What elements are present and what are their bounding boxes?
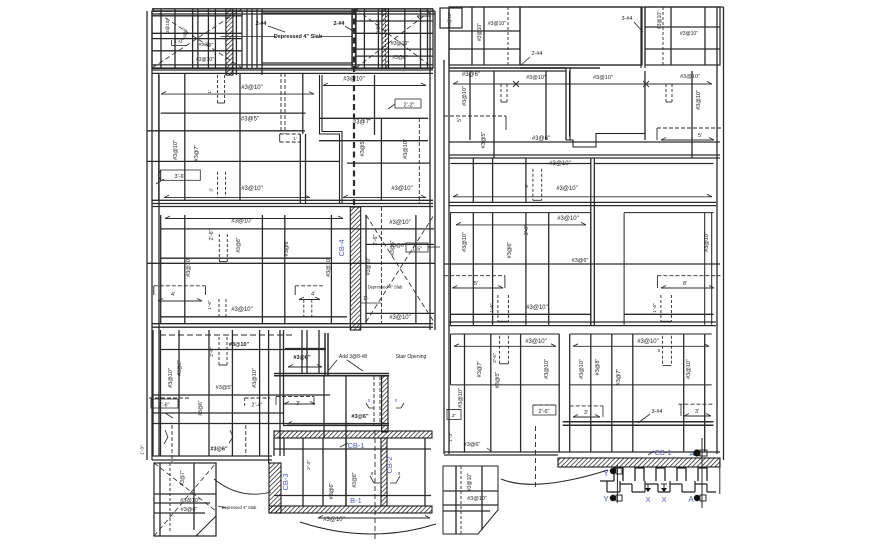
label #3@10 band3 low	[231, 307, 253, 313]
svg-text:2'-6": 2'-6"	[492, 353, 498, 363]
right panel outer east	[717, 7, 724, 460]
label x mark rp b5	[658, 348, 661, 354]
svg-text:#3@10": #3@10"	[467, 473, 473, 491]
band3 beam y229	[161, 228, 434, 230]
rp b5 dim lines	[454, 344, 709, 347]
rp b5 stirrups	[500, 336, 672, 366]
label #3@10 rot band4 w	[168, 368, 174, 388]
svg-text:1'-3": 1'-3"	[140, 445, 146, 455]
svg-text:CB-1: CB-1	[654, 448, 671, 457]
band4 verticals	[153, 330, 346, 506]
svg-text:#3@5": #3@5"	[216, 385, 233, 391]
beam CB-1 hatch left	[274, 431, 432, 438]
label #3@10 rot rp tl	[477, 23, 483, 41]
svg-text:#3@10": #3@10"	[343, 77, 365, 83]
label #3@7 rot bl	[180, 470, 186, 485]
label #3@10 rot rp b2 e	[696, 90, 702, 110]
label 1-6 band3 r	[361, 294, 382, 303]
label #3@10 rot rp b5 w	[458, 388, 464, 408]
beam CB-2 hatch	[381, 438, 387, 506]
band3 beam y263	[147, 262, 435, 264]
svg-text:2'-6": 2'-6"	[209, 347, 215, 357]
label #3@10 rp b2 b	[593, 75, 613, 81]
label Depressed 4 Slab top	[221, 34, 352, 40]
rp mid beam y225	[456, 222, 586, 225]
beam CB-4 hatch bar	[350, 207, 360, 330]
svg-text:#3@10": #3@10"	[458, 388, 464, 408]
rp b5 3-#4	[638, 409, 663, 423]
svg-text:#3@10": #3@10"	[366, 257, 372, 275]
label 1-3 rot rp w	[448, 432, 454, 442]
svg-text:2'-3": 2'-3"	[306, 460, 312, 470]
label #3@10 band5 dim	[318, 516, 430, 524]
label #3@10 rot rp bl	[467, 473, 473, 491]
label 6@6 rot tl	[183, 27, 188, 39]
label #3@10 rot band2 west	[173, 140, 179, 160]
svg-text:#3@7": #3@7"	[353, 120, 371, 126]
svg-text:B-1: B-1	[350, 496, 362, 505]
rp b2 verticals	[470, 68, 692, 158]
top band outer	[152, 9, 433, 69]
svg-text:Add 3@8-#8: Add 3@8-#8	[339, 354, 367, 360]
label #3@6 rp	[462, 72, 480, 78]
band2 dim low	[164, 195, 426, 198]
dashed drop box band2	[280, 73, 300, 142]
label 1-6 rot rp mid b	[652, 303, 658, 313]
svg-text:4': 4'	[171, 292, 175, 298]
label B-1	[350, 496, 362, 505]
svg-text:CB-2: CB-2	[385, 456, 394, 473]
rp b5 dim 3a	[570, 406, 603, 417]
top-right panel diagonals	[356, 9, 433, 68]
label #3@10 rot rp tr	[657, 11, 663, 29]
column hatch strip C2	[382, 9, 389, 68]
svg-text:#3@6": #3@6"	[210, 447, 228, 453]
label 1-3 rot bl	[140, 445, 146, 455]
svg-text:1'-6": 1'-6"	[652, 303, 658, 313]
beam CB-4 top heavy line	[352, 9, 356, 68]
svg-text:#3@10": #3@10"	[467, 496, 487, 502]
rp b2 stirrups	[501, 84, 672, 102]
label 3-#4 rp	[621, 16, 643, 32]
rp b5 verticals right	[591, 334, 705, 452]
svg-text:#3@10": #3@10"	[326, 257, 332, 277]
svg-text:5': 5'	[457, 118, 463, 122]
rp b5 dim 2-6w	[447, 409, 461, 419]
label #3@10 band3	[231, 219, 253, 225]
left panel outer wall west	[147, 11, 152, 460]
svg-text:#3@10": #3@10"	[241, 85, 263, 91]
svg-text:#3@10": #3@10"	[593, 75, 613, 81]
svg-text:#3@10": #3@10"	[231, 307, 253, 313]
svg-text:#3@10": #3@10"	[477, 23, 483, 41]
svg-text:3'-6": 3'-6"	[175, 174, 186, 180]
svg-text:#3@6": #3@6"	[507, 242, 513, 259]
label 3@10 rot tl	[165, 19, 170, 33]
dim 2-2 box	[388, 99, 421, 109]
band5 verticals	[303, 430, 425, 540]
label #3@10 rp tr	[680, 31, 698, 37]
label #3@6 band4 low2	[351, 414, 369, 420]
svg-text:CB-4: CB-4	[337, 239, 346, 256]
svg-text:2'-6": 2'-6"	[159, 403, 170, 409]
label #3@6 band4 bracket	[285, 349, 326, 368]
svg-text:#3@10": #3@10"	[447, 12, 452, 29]
svg-text:#3@10": #3@10"	[196, 57, 214, 63]
rp bottom curve	[501, 426, 608, 488]
bottom-left box grid	[154, 463, 216, 536]
label CB-1 left	[340, 441, 365, 450]
left panel outer wall east	[430, 11, 435, 330]
band4 beam y395	[153, 394, 330, 396]
label #3@6 rot band4 low	[198, 400, 204, 415]
right panel outer north	[449, 6, 724, 8]
svg-text:1'-6": 1'-6"	[207, 300, 213, 310]
label CB-1 right	[648, 448, 672, 457]
band5 wall strip details	[164, 424, 284, 462]
band3 room borders	[161, 215, 332, 324]
stair dashed pair	[374, 376, 380, 425]
svg-text:#3@10": #3@10"	[389, 315, 411, 321]
rp mid rooms	[451, 213, 714, 325]
label #3@10 rot band3 mid	[326, 257, 332, 277]
svg-text:CB-3: CB-3	[281, 473, 290, 490]
label CB-2	[385, 456, 394, 473]
svg-text:#3@10": #3@10"	[488, 21, 506, 27]
band2 dashed stirrup a	[207, 75, 225, 103]
label 1-6 rot band3	[207, 300, 213, 310]
rp top-right box	[645, 7, 720, 65]
rp bottom-left slab box	[443, 466, 498, 534]
svg-text:#3@10": #3@10"	[686, 359, 692, 379]
svg-text:#3@10": #3@10"	[557, 216, 579, 222]
label A top	[689, 449, 694, 458]
label #3@5 band4	[216, 385, 233, 391]
svg-text:#3@5": #3@5"	[495, 372, 501, 389]
rp mid dashed dim 5ft	[444, 276, 505, 288]
bracket X marks band5	[370, 471, 401, 483]
rp bl grid	[443, 466, 498, 534]
svg-text:#3@10": #3@10"	[526, 305, 548, 311]
bottom-left diagonals	[154, 463, 216, 536]
svg-text:1'-5": 1'-5"	[412, 247, 422, 253]
rp b5 thick beam	[563, 422, 714, 426]
band3 right beams	[366, 244, 434, 313]
svg-text:8': 8'	[683, 281, 687, 287]
svg-text:#3@10": #3@10"	[696, 90, 702, 110]
band3 right room diagonals	[366, 215, 434, 322]
svg-text:1'-3": 1'-3"	[448, 432, 454, 442]
svg-text:3@10": 3@10"	[165, 19, 170, 33]
left panel outer wall north	[152, 11, 435, 14]
rp b3 dim	[453, 194, 712, 197]
comb vertical line	[702, 438, 720, 508]
label #3@10 rot band3 west	[186, 257, 192, 277]
band3 right room verts	[366, 207, 416, 324]
svg-text:#3@10": #3@10"	[462, 86, 468, 106]
band3 top wall	[152, 204, 433, 207]
stair bracket x marks	[366, 398, 404, 408]
label 2-#4 top left	[255, 21, 285, 32]
stair opening walls	[274, 333, 389, 376]
label #3@6 band3 r	[366, 243, 406, 275]
rp b2 dashed dim 5ft	[444, 116, 506, 130]
band2 dim line left	[161, 92, 314, 95]
svg-text:#3@10": #3@10"	[252, 368, 258, 388]
rp b2 dashed dim 5ft r	[657, 128, 724, 140]
label #3@10 topright	[391, 41, 409, 47]
label #3@5 topleft	[199, 42, 214, 48]
svg-text:#3@10": #3@10"	[391, 186, 413, 192]
svg-text:#3@10": #3@10"	[180, 498, 200, 504]
top-left slab panel border	[152, 11, 242, 68]
beam B-1 hatch bar	[269, 506, 432, 513]
svg-text:#3@6": #3@6"	[351, 414, 369, 420]
rp b5 verticals left	[465, 334, 521, 452]
label #3@10 band4	[229, 342, 250, 348]
rp band3 wall	[449, 155, 720, 158]
stair beam hatch	[382, 376, 388, 432]
label 2-3 rot band5	[306, 460, 312, 470]
label #3@6 rot band3	[284, 240, 290, 257]
dim 3-6 band2	[156, 170, 200, 184]
label #3@10 rot rp mid w	[462, 232, 468, 252]
beam CB-1 hatch right	[558, 458, 720, 467]
top-left panel grid lines	[152, 9, 242, 75]
label depressed slab band3	[368, 285, 403, 290]
label #3@10 rot band4 m	[252, 368, 258, 388]
svg-text:#3@8": #3@8"	[236, 237, 242, 252]
svg-text:#3@10": #3@10"	[637, 339, 659, 345]
svg-text:#3@5": #3@5"	[241, 117, 259, 123]
band2 top edge	[152, 70, 433, 73]
svg-text:#3@10": #3@10"	[403, 139, 409, 159]
svg-text:#3@6": #3@6"	[572, 258, 589, 264]
label #3@6 bl	[181, 507, 198, 513]
label #3@7 rot rp b5	[477, 361, 483, 378]
corner tick topright	[417, 16, 431, 21]
rp b4 wall	[449, 202, 716, 205]
rp mid bottom wall	[449, 322, 716, 326]
label #3@10 rp b5 a	[525, 339, 547, 345]
svg-text:#3@10": #3@10"	[556, 186, 578, 192]
svg-text:#3@10": #3@10"	[680, 74, 700, 80]
band4 double dim y424	[153, 422, 389, 426]
svg-text:2'-6": 2'-6"	[209, 229, 215, 240]
label #3@10 band2 right	[323, 77, 426, 86]
svg-text:5': 5'	[698, 133, 702, 139]
label #3@6 bl2	[177, 360, 183, 375]
svg-text:6@6": 6@6"	[183, 27, 188, 39]
svg-text:2'-6": 2'-6"	[524, 225, 530, 235]
svg-text:#3@10": #3@10"	[186, 257, 192, 277]
svg-text:1'-0": 1'-0"	[174, 39, 184, 45]
dim 1-5 band3 edge	[406, 243, 440, 253]
rp b3 room tops	[451, 163, 714, 165]
label #3@10 rot rp b2	[462, 86, 468, 106]
svg-text:#3@5": #3@5"	[390, 240, 396, 255]
label A bottom	[688, 495, 706, 504]
svg-text:1'-6": 1'-6"	[489, 303, 495, 313]
band4 beam y350	[160, 349, 325, 351]
svg-text:3-#4: 3-#4	[651, 409, 662, 415]
rp left edge boxes	[440, 8, 462, 28]
svg-text:Y: Y	[603, 495, 609, 504]
label #3@5 rot rp b5	[495, 372, 501, 389]
svg-text:2-#4: 2-#4	[531, 51, 542, 57]
label #3@10 rot rp mid e	[704, 232, 710, 252]
svg-text:5': 5'	[474, 281, 478, 287]
svg-text:A: A	[688, 495, 694, 504]
svg-text:3': 3'	[584, 410, 588, 416]
label #3@6 rp b2	[532, 136, 550, 142]
svg-text:#3@7": #3@7"	[616, 369, 622, 386]
room notch wall band2	[320, 75, 343, 204]
column strip lines	[247, 9, 262, 75]
svg-text:#3@10": #3@10"	[241, 186, 263, 192]
svg-text:#3@10": #3@10"	[391, 41, 409, 47]
band5 line y449	[274, 449, 431, 496]
svg-text:3': 3'	[695, 409, 699, 415]
label #3@10 rp tl	[488, 21, 506, 27]
svg-text:Depressed 4" Slab: Depressed 4" Slab	[274, 34, 323, 40]
svg-text:#3@10": #3@10"	[657, 11, 663, 29]
band2 stirrup b	[208, 172, 225, 198]
label #3@10 rp b5 b	[637, 339, 659, 345]
label depressed slab bl	[218, 505, 257, 510]
rp b2 beam y142	[449, 141, 720, 143]
rp mid stirrups	[498, 295, 672, 321]
svg-text:#3@10": #3@10"	[231, 219, 253, 225]
rp mid beam y314	[451, 313, 714, 315]
dim 2-4 dashed band4	[245, 398, 271, 409]
label 2-6 rot rp mid	[524, 225, 530, 235]
rp top mid box	[520, 7, 642, 68]
comb teeth row2	[600, 481, 716, 492]
label Add 3@8	[328, 354, 427, 371]
label #3@5 band2	[241, 117, 259, 123]
column hatch strip C1	[226, 9, 233, 75]
svg-text:#3@7": #3@7"	[194, 145, 200, 162]
dim 1-0 top-left	[172, 39, 188, 46]
svg-text:#3@5": #3@5"	[481, 132, 487, 149]
band3 bottom wall	[152, 324, 433, 328]
band4 dashed top line	[160, 334, 292, 336]
label 2-6 rot band3 r	[373, 234, 379, 245]
left bottom wall	[152, 456, 272, 460]
dim 2-6 dashed band4	[149, 398, 189, 409]
bottom arc left panel	[300, 522, 436, 534]
top-right panel grid	[356, 9, 433, 68]
rp top-left box	[449, 7, 520, 65]
label #3@6 rp b5	[464, 442, 492, 452]
rp band2 top	[449, 68, 566, 71]
rp mid verticals	[473, 213, 548, 325]
label 2-#4 rp	[521, 51, 543, 65]
svg-text:#3@8": #3@8"	[352, 472, 358, 487]
svg-text:1': 1'	[293, 136, 297, 141]
svg-text:2-#4: 2-#4	[255, 21, 267, 27]
top-right slab panel border	[356, 9, 433, 68]
label #3@10 rp b2 c	[680, 74, 700, 80]
svg-text:3': 3'	[208, 188, 214, 192]
rp b5 dim 2-6	[533, 405, 556, 415]
rp bottom wall	[444, 452, 720, 455]
band3 beam y258	[161, 257, 332, 259]
band2 bottom wall	[152, 199, 433, 201]
label #3@10 rp mid low	[526, 305, 548, 311]
rp top-left grid	[449, 7, 520, 65]
label #3@10 rot rp b5 a	[544, 359, 550, 379]
svg-text:2'-2": 2'-2"	[404, 103, 415, 109]
svg-text:#3@6": #3@6"	[462, 72, 480, 78]
label #3@5 rot rp b2	[481, 132, 487, 149]
svg-text:#3@10": #3@10"	[680, 31, 698, 37]
svg-text:#3@6": #3@6"	[464, 442, 481, 448]
svg-text:2'-6": 2'-6"	[539, 409, 550, 415]
dim 3ft band4	[276, 396, 315, 407]
svg-text:3@10": 3@10"	[376, 19, 381, 33]
label Y bottom	[603, 495, 622, 504]
dim 4ft dashed band3	[154, 286, 206, 301]
label #3@10 band2 low right	[391, 186, 413, 192]
rp double col	[641, 7, 645, 68]
band2 long beam y162	[147, 161, 430, 163]
label #3@8 band5	[352, 472, 358, 487]
label #3@8 rot band3	[236, 237, 242, 252]
label #3@6 rot rp mid	[507, 242, 513, 259]
depressed slab box	[262, 13, 352, 63]
svg-text:#3@6": #3@6"	[284, 240, 290, 257]
dim 4ft band3 mid	[295, 286, 323, 300]
svg-text:#3@10": #3@10"	[579, 359, 585, 379]
rp tr grid	[645, 7, 720, 65]
label #3@10 rp bl	[467, 496, 487, 502]
label #3@10 bl	[180, 498, 200, 504]
label #3@10 rp b3 label	[556, 186, 578, 192]
right panel outer west	[444, 7, 449, 454]
label #3@10 rp b2 a	[526, 75, 546, 81]
svg-text:#3@10": #3@10"	[389, 220, 411, 226]
label #3@10 band2 left	[241, 85, 263, 91]
svg-text:#3@5": #3@5"	[199, 42, 214, 48]
label #3@10 rot rp b5 b	[579, 359, 585, 379]
rp b5 dim 3b	[678, 404, 713, 416]
band4 stirrup e	[209, 337, 227, 365]
label CB-4	[337, 239, 346, 256]
label #3@10 rot rp b5 d	[686, 359, 692, 379]
svg-text:4': 4'	[311, 292, 315, 298]
band2 vertical beam lines	[159, 73, 420, 204]
label #3@10 rp mid	[557, 216, 579, 222]
label #3@6 band5	[329, 483, 335, 500]
rp b3 stirrup	[524, 169, 542, 201]
svg-text:2-#4: 2-#4	[333, 21, 345, 27]
svg-text:#3@10": #3@10"	[526, 75, 546, 81]
bl curve	[214, 479, 271, 494]
svg-text:Depressed 4" Slab: Depressed 4" Slab	[222, 505, 257, 510]
left panel inner wall line x159	[158, 75, 160, 456]
svg-text:#3@5": #3@5"	[360, 140, 366, 157]
bottom-left slab box	[154, 463, 216, 536]
rp mid beam y264	[444, 258, 720, 264]
band3 beam y218	[165, 216, 343, 219]
svg-text:X: X	[661, 495, 666, 504]
rp mid dashed dim 8ft	[657, 276, 720, 288]
band4 beam y413	[153, 413, 283, 418]
label #3@7 rot band2	[194, 145, 200, 162]
svg-text:#3@10": #3@10"	[544, 359, 550, 379]
